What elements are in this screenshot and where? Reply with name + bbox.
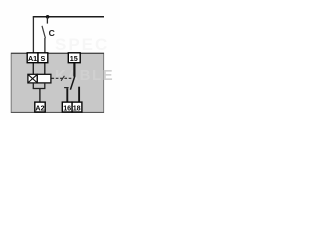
wire junction bar to A2 terminal [39,89,41,103]
coil (timer) box with X [28,74,37,83]
wire contact to 18 terminal [78,87,80,102]
mechanical link dashed from coil to contact [52,77,72,79]
control input box (S) [37,74,51,83]
switch C blade (open) [42,26,45,38]
relay body box [11,53,103,112]
wire left vertical (supply to A1) [32,17,34,54]
relay body top edge [11,52,104,54]
svg-text:15: 15 [70,54,78,63]
wire bottom junction bar [33,88,46,90]
wire A1 terminal to coil [32,63,34,75]
svg-text:A2: A2 [35,104,44,113]
terminal A2 [35,102,45,112]
svg-text:C: C [49,28,55,38]
junction node at top wire [46,15,50,19]
svg-text:SPEC: SPEC [55,35,109,54]
svg-text:16: 16 [63,104,71,113]
terminal 15 [68,53,80,63]
wire contact to 16 terminal [66,88,68,102]
terminal A1 [27,53,38,63]
wire control box bottom right stub [44,83,46,89]
wire S terminal to control box [44,63,46,75]
terminal 16 [62,102,72,112]
wire 15 terminal to contact [73,63,75,77]
terminal S [38,53,48,63]
svg-text:18: 18 [73,104,81,113]
terminal 18 [72,102,82,112]
delay tick across link [61,76,64,81]
wire coil bottom left stub [32,83,34,89]
changeover contact blade 15 [70,76,74,90]
relay body bottom edge [11,111,104,113]
contact 16 anvil tick [64,87,69,89]
wire top horizontal [33,16,104,18]
svg-text:A1: A1 [28,54,37,63]
wire switch to S terminal [44,38,46,53]
wire stub below junction [46,17,48,24]
background [0,0,120,120]
svg-text:KABLE: KABLE [55,67,114,84]
svg-text:S: S [41,54,46,63]
